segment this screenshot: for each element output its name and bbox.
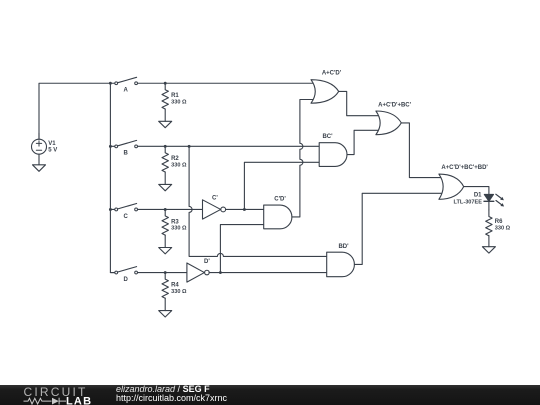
svg-text:B: B	[124, 151, 129, 157]
wire A row	[138, 82, 315, 84]
ground below R6	[482, 247, 495, 253]
svg-text:R2: R2	[171, 156, 179, 162]
svg-text:A: A	[124, 88, 129, 94]
svg-text:LTL-307EE: LTL-307EE	[454, 200, 483, 206]
and-gate C'D'	[264, 196, 292, 229]
ground below V1	[33, 161, 46, 172]
wire D' output	[209, 272, 327, 274]
svg-text:R6: R6	[495, 219, 503, 225]
resistor R6	[486, 210, 511, 247]
switch D	[110, 267, 137, 283]
wire D row	[138, 272, 188, 274]
resistor R4	[162, 273, 187, 311]
wire C' output	[226, 208, 264, 210]
wire B row	[138, 145, 320, 147]
wire V1 to bus	[39, 83, 110, 139]
switch A	[110, 77, 137, 93]
svg-text:D1: D1	[474, 193, 482, 199]
svg-text:A+C'D'+BC': A+C'D'+BC'	[378, 102, 412, 108]
svg-text:C: C	[124, 214, 129, 220]
wire C' to BC' gate	[244, 162, 319, 209]
svg-text:A+C'D': A+C'D'	[322, 70, 342, 76]
wire D' to C'D' gate	[220, 225, 263, 273]
wire BD' output to OR3	[354, 193, 442, 264]
wire OR1 output to OR2	[339, 91, 379, 115]
svg-text:5 V: 5 V	[48, 147, 57, 153]
svg-text:D': D'	[204, 259, 210, 265]
or-gate A+C'D'	[311, 70, 342, 103]
node B branch	[188, 145, 191, 148]
svg-text:A+C'D'+BC'+BD': A+C'D'+BC'+BD'	[441, 165, 488, 171]
wire bus vertical	[110, 83, 114, 272]
wire C'D' output to OR1 (with hops)	[292, 100, 315, 217]
resistor R3	[162, 209, 187, 247]
wire C row	[138, 208, 203, 210]
inverter D'	[187, 259, 210, 282]
CircuitLab logo	[23, 386, 103, 405]
svg-text:BC': BC'	[322, 134, 333, 140]
svg-text:330 Ω: 330 Ω	[171, 289, 187, 295]
footer bar	[0, 385, 540, 405]
switch B	[110, 140, 137, 156]
node R2 top	[164, 145, 167, 148]
resistor R2	[162, 146, 187, 184]
wire OR2 output to OR3	[401, 123, 442, 178]
wire B to BD' gate (with hops)	[189, 146, 327, 256]
svg-text:BD': BD'	[338, 244, 349, 250]
svg-text:LAB: LAB	[66, 395, 92, 405]
node R1 top	[164, 82, 167, 85]
svg-text:C'D': C'D'	[274, 196, 286, 202]
ground below R4	[159, 311, 172, 317]
node C' junction	[243, 208, 246, 211]
resistor R1	[162, 83, 187, 121]
svg-text:C': C'	[212, 196, 218, 202]
inverter C'	[203, 196, 226, 220]
svg-text:330 Ω: 330 Ω	[171, 100, 187, 106]
or-gate A+C'D'+BC'	[376, 102, 412, 134]
switch C	[110, 204, 137, 220]
svg-text:330 Ω: 330 Ω	[171, 226, 187, 232]
svg-text:330 Ω: 330 Ω	[495, 225, 511, 231]
node D' junction	[219, 271, 222, 274]
node bus-B	[109, 145, 112, 148]
ground below R2	[159, 184, 172, 190]
wire BC' output to OR2	[347, 130, 379, 154]
svg-text:V1: V1	[48, 141, 56, 147]
svg-text:R1: R1	[171, 93, 179, 99]
ground below R3	[159, 248, 172, 254]
node R3 top	[164, 208, 167, 211]
wire LED to R6	[488, 201, 490, 210]
voltage source V1	[32, 133, 58, 161]
node R4 top	[164, 271, 167, 274]
wire OR3 output to LED	[464, 187, 489, 195]
and-gate BD'	[327, 244, 355, 277]
and-gate BC'	[319, 134, 347, 167]
svg-text:330 Ω: 330 Ω	[171, 163, 187, 169]
footer text	[116, 385, 227, 404]
ground below R1	[159, 121, 172, 127]
node bus-A	[109, 82, 112, 85]
svg-text:R4: R4	[171, 282, 179, 288]
svg-text:D: D	[124, 277, 129, 283]
or-gate A+C'D'+BC'+BD'	[439, 165, 489, 199]
node bus-C	[109, 208, 112, 211]
LED D1	[454, 193, 505, 207]
svg-text:R3: R3	[171, 219, 179, 225]
